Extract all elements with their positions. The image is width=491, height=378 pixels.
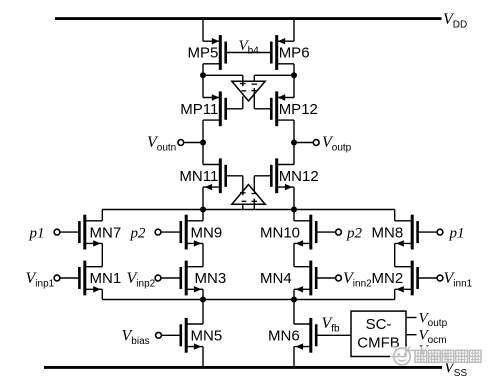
MN11 label — [179, 168, 218, 185]
svg-text:p1: p1 — [449, 225, 465, 241]
SC-CMFB Vocm label — [419, 328, 447, 347]
transistor MN5 — [181, 318, 203, 353]
op-amp A1 gain-boost top — [232, 81, 265, 101]
wire node D to MN10 drain — [293, 210, 295, 221]
transistor MN8 — [395, 215, 418, 250]
Vinp1 input terminal — [54, 275, 79, 281]
wire MN5 source to VSS — [202, 347, 204, 368]
Vinp1 label — [26, 270, 55, 290]
svg-text:MN5: MN5 — [191, 328, 223, 345]
transistor MP5 — [203, 35, 226, 70]
MP12 label — [279, 101, 318, 118]
wire A2 output right to MN12 gate — [252, 176, 272, 194]
wire node C to MN9 drain — [202, 210, 204, 221]
wire MN7 drain jog up to node C line — [101, 210, 103, 221]
Voutp label — [322, 134, 352, 154]
p1 label right — [449, 225, 465, 241]
wire MP6 drain to node B — [293, 64, 295, 76]
SC-CMFB Voutn label — [419, 343, 448, 362]
MN6 label — [268, 328, 300, 345]
wire A2 input right — [252, 199, 258, 210]
svg-text:p2: p2 — [346, 225, 363, 241]
wire node B to MP12 source — [293, 75, 295, 97]
transistor MN7 — [79, 215, 102, 250]
SC-CMFB Voutp label — [419, 310, 448, 329]
wire MP11 drain to Voutn node — [202, 120, 204, 142]
MN8 label — [372, 224, 404, 241]
svg-text:p2: p2 — [130, 225, 147, 241]
wire A2 output left to MN11 gate — [226, 176, 246, 196]
wire A1 output left to MP11 gate — [226, 96, 243, 108]
node C junction dot — [200, 207, 206, 213]
wire MN9 source to MN3 drain — [202, 243, 204, 266]
wire Voutp node to MN12 drain — [293, 143, 295, 165]
wire MN8 drain jog up to node D line — [394, 210, 396, 221]
transistor MN10 — [294, 215, 316, 250]
wire MP12 drain to Voutp node — [293, 120, 295, 142]
node A junction dot — [200, 72, 206, 78]
transistor MP6 — [271, 35, 294, 70]
Vinp2 label — [127, 270, 156, 290]
svg-text:MN10: MN10 — [260, 224, 300, 241]
wire MN10 source to MN4 drain — [293, 243, 295, 266]
Vb4 label — [239, 38, 260, 57]
wire VDD to MP6 source — [293, 19, 295, 42]
wire node A to top amp input — [203, 74, 243, 76]
wire MN7 source to MN1 drain — [101, 243, 103, 266]
MN12 label — [279, 168, 319, 185]
MP6 label — [279, 45, 310, 62]
Vinp2 input terminal — [155, 275, 181, 281]
wire MN1 source down to tail line — [101, 289, 103, 299]
Vinn1 label — [444, 270, 473, 290]
p2 input terminal left — [155, 229, 181, 235]
VSS power rail — [44, 366, 442, 369]
wire SC-CMFB Vocm lead — [406, 334, 417, 336]
Voutp node junction dot — [291, 140, 297, 146]
MN5 label — [191, 328, 223, 345]
svg-text:MP5: MP5 — [187, 45, 218, 62]
svg-text:MP12: MP12 — [279, 101, 318, 118]
Vinn2 label — [343, 270, 372, 290]
transistor MP12 — [271, 91, 294, 126]
svg-text:MN4: MN4 — [260, 270, 292, 287]
transistor MN12 — [271, 158, 294, 193]
svg-text:MP11: MP11 — [180, 101, 218, 118]
A1 minus sign lower left — [242, 90, 247, 92]
node D junction dot — [291, 207, 297, 213]
transistor MN9 — [181, 215, 203, 250]
wire A1 input left — [240, 75, 246, 86]
svg-text:MN3: MN3 — [195, 270, 227, 287]
svg-text:MN8: MN8 — [372, 224, 404, 241]
p2 label right — [346, 225, 363, 241]
watermark logo and text — [390, 347, 485, 365]
transistor MP11 — [203, 91, 226, 126]
Voutp output terminal — [294, 140, 319, 146]
wire MN4 source to node F — [293, 289, 295, 299]
wire A1 output right to MP12 gate — [252, 88, 272, 109]
wire node A to MP11 source — [202, 75, 204, 97]
Vbias input terminal — [156, 332, 181, 338]
Voutn label — [147, 134, 176, 154]
svg-text:MN7: MN7 — [90, 224, 122, 241]
wire MN8 source to MN2 drain — [394, 243, 396, 266]
Vfb label — [322, 315, 341, 335]
wire A1 input right — [252, 75, 258, 84]
wire MN3 source to node E — [202, 289, 204, 299]
transistor MN3 — [181, 261, 203, 296]
SC-CMFB block U1 — [351, 311, 406, 356]
p2 input terminal right — [316, 229, 341, 235]
wire Vb4 gate line — [226, 52, 272, 54]
transistor MN4 — [294, 261, 316, 296]
Vinn2 input terminal — [316, 275, 341, 281]
node E junction dot — [200, 297, 206, 303]
svg-text:MN11: MN11 — [179, 168, 218, 185]
svg-text:MP6: MP6 — [279, 45, 310, 62]
wire MN6 gate to SC-CMFB — [316, 334, 351, 336]
node B junction dot — [291, 72, 297, 78]
VSS label — [444, 360, 467, 378]
op-amp A2 gain-boost bottom — [232, 185, 265, 205]
Voutn output terminal — [178, 140, 203, 146]
MN7 label — [90, 224, 122, 241]
svg-text:p1: p1 — [29, 225, 45, 241]
MN4 label — [260, 270, 292, 287]
svg-text:MN6: MN6 — [268, 328, 300, 345]
A2 minus sign lower left — [242, 200, 247, 202]
svg-text:MN9: MN9 — [191, 224, 223, 241]
Vinn1 input terminal — [418, 275, 443, 281]
wire MN11 source to node C — [202, 187, 204, 209]
wire node B to top amp input — [254, 74, 294, 76]
wire MP5 drain to node A — [202, 64, 204, 76]
p1 input terminal right — [418, 229, 443, 235]
MN1 label — [90, 270, 122, 287]
wire MN12 source to node D — [293, 187, 295, 209]
VDD power rail — [55, 17, 442, 20]
MN2 label — [372, 270, 404, 287]
p1 input terminal left — [54, 229, 79, 235]
svg-text:MN12: MN12 — [279, 168, 319, 185]
transistor MN2 — [395, 261, 418, 296]
wire A2 input left — [242, 204, 244, 209]
wire MN2 source down to tail line — [394, 289, 396, 299]
wire cascode node line — [102, 209, 394, 211]
MN10 label — [260, 224, 300, 241]
MP11 label — [180, 101, 218, 118]
svg-text:MN2: MN2 — [372, 270, 404, 287]
Voutn node junction dot — [200, 140, 206, 146]
MN9 label — [191, 224, 223, 241]
transistor MN6 — [294, 318, 316, 353]
wire node F to MN6 drain — [293, 300, 295, 325]
p2 label left — [130, 225, 147, 241]
wire VDD to MP5 source — [202, 19, 204, 42]
transistor MN11 — [203, 158, 226, 193]
wire node E to MN5 drain — [202, 300, 204, 325]
wire SC-CMFB Voutp lead — [406, 317, 417, 319]
wire SC-CMFB Voutn lead — [406, 349, 417, 351]
wire Voutn node to MN11 drain — [202, 143, 204, 165]
transistor MN1 — [79, 261, 102, 296]
Vbias label — [122, 328, 150, 348]
wire MN6 source to VSS — [293, 347, 295, 368]
wire common source tail line — [102, 299, 394, 301]
MN3 label — [195, 270, 227, 287]
MP5 label — [187, 45, 218, 62]
node F junction dot — [291, 297, 297, 303]
svg-text:SC-: SC- — [366, 316, 392, 333]
VDD label — [443, 11, 467, 31]
svg-text:MN1: MN1 — [90, 270, 122, 287]
p1 label left — [29, 225, 45, 241]
